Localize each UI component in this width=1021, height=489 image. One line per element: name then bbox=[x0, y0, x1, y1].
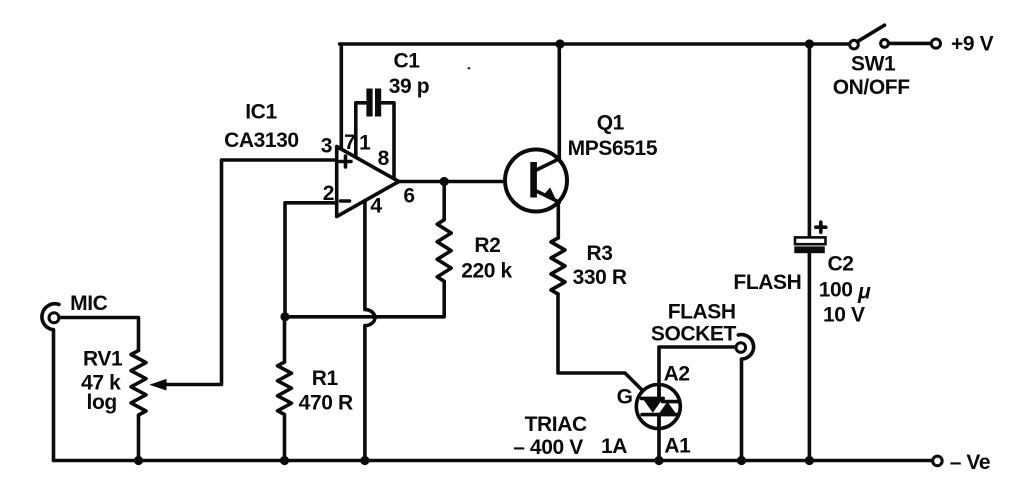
svg-text:– Ve: – Ve bbox=[950, 451, 990, 474]
junction rail / socket bbox=[737, 456, 746, 465]
svg-text:3: 3 bbox=[321, 135, 332, 158]
svg-text:330 R: 330 R bbox=[573, 266, 627, 289]
resistor R2 220k bbox=[437, 182, 451, 282]
junction rail / R1 bbox=[280, 456, 289, 465]
svg-text:C2: C2 bbox=[827, 253, 853, 276]
terminal flash socket bbox=[736, 335, 754, 461]
resistor R1 470R bbox=[278, 317, 292, 461]
svg-text:C1: C1 bbox=[393, 50, 420, 73]
svg-text:ON/OFF: ON/OFF bbox=[833, 76, 910, 99]
svg-text:Q1: Q1 bbox=[597, 111, 625, 134]
junction rail / pin4 bbox=[360, 456, 369, 465]
svg-text:1A: 1A bbox=[601, 435, 627, 458]
svg-text:8: 8 bbox=[378, 147, 390, 170]
microphone terminal MIC bbox=[42, 304, 59, 461]
transistor Q1 MPS6515 bbox=[505, 150, 567, 212]
scan speck bbox=[468, 67, 471, 69]
svg-text:6: 6 bbox=[403, 185, 414, 208]
RV1 wiper arrowhead bbox=[149, 379, 166, 391]
svg-text:FLASH: FLASH bbox=[733, 271, 801, 294]
wire pin 4 to ground rail with hop over node wire bbox=[365, 201, 375, 461]
op-amp plus marking bbox=[340, 156, 351, 167]
potentiometer RV1 47k log bbox=[131, 351, 146, 461]
svg-text:R1: R1 bbox=[312, 367, 339, 390]
op-amp IC1 CA3130 triangle bbox=[337, 147, 399, 217]
junction top rail / C2 bbox=[805, 39, 814, 48]
wire triac A1 to ground rail bbox=[657, 415, 661, 461]
svg-text:RV1: RV1 bbox=[83, 347, 123, 370]
svg-text:A1: A1 bbox=[664, 435, 691, 458]
svg-text:SW1: SW1 bbox=[851, 52, 896, 75]
wire pin 2 to inverting node bbox=[285, 203, 337, 317]
svg-text:IC1: IC1 bbox=[245, 101, 277, 124]
wire op-amp output to Q1 base bbox=[399, 180, 531, 184]
capacitor C1 bbox=[356, 89, 394, 181]
svg-text:MPS6515: MPS6515 bbox=[568, 137, 658, 160]
junction inverting node bbox=[280, 312, 289, 321]
svg-text:CA3130: CA3130 bbox=[224, 129, 299, 152]
wire triac A2 to flash socket bbox=[659, 347, 735, 399]
svg-text:100 μ: 100 μ bbox=[819, 279, 871, 304]
svg-text:A2: A2 bbox=[664, 363, 690, 386]
wire top +9V supply rail bbox=[340, 42, 850, 46]
svg-text:R2: R2 bbox=[474, 234, 500, 257]
svg-text:G: G bbox=[617, 386, 633, 409]
svg-text:4: 4 bbox=[370, 195, 382, 218]
svg-text:– 400 V: – 400 V bbox=[513, 436, 583, 459]
triac bbox=[636, 385, 680, 429]
svg-text:SOCKET: SOCKET bbox=[651, 323, 737, 346]
svg-text:1: 1 bbox=[359, 132, 371, 155]
svg-text:+9 V: +9 V bbox=[951, 33, 994, 56]
svg-text:10 V: 10 V bbox=[823, 304, 865, 327]
junction rail / C2 bbox=[805, 456, 814, 465]
svg-text:470 R: 470 R bbox=[299, 392, 353, 415]
wire Q1 collector to rail bbox=[557, 44, 561, 159]
svg-text:7: 7 bbox=[344, 131, 355, 154]
wire MIC to RV1 bbox=[59, 318, 139, 351]
capacitor C2 bbox=[794, 44, 826, 461]
wire R3 to triac gate bbox=[558, 294, 646, 394]
junction rail / triac A1 bbox=[654, 456, 663, 465]
switch SW1 bbox=[850, 25, 930, 49]
junction top rail / Q1 collector bbox=[555, 39, 564, 48]
svg-text:R3: R3 bbox=[586, 242, 612, 265]
svg-text:220 k: 220 k bbox=[461, 260, 512, 283]
svg-text:MIC: MIC bbox=[70, 292, 108, 315]
svg-text:log: log bbox=[87, 391, 117, 414]
wire pin 3 from RV1 wiper bbox=[165, 160, 337, 385]
svg-text:TRIAC: TRIAC bbox=[525, 413, 587, 436]
resistor R3 330R bbox=[551, 238, 565, 294]
wire inverting node to R2 bottom bbox=[285, 281, 444, 317]
wire Q1 emitter to R3 bbox=[556, 202, 560, 238]
junction rail / RV1 bbox=[134, 456, 143, 465]
terminal +9V bbox=[931, 39, 940, 48]
junction op-amp output bbox=[440, 177, 449, 186]
wire op-amp pin 7 to rail bbox=[339, 44, 343, 150]
op-amp minus marking bbox=[341, 199, 350, 203]
svg-text:FLASH: FLASH bbox=[668, 301, 736, 324]
terminal -Ve bbox=[933, 456, 943, 466]
svg-text:39 p: 39 p bbox=[389, 75, 429, 98]
wire bottom ground rail bbox=[54, 459, 932, 463]
